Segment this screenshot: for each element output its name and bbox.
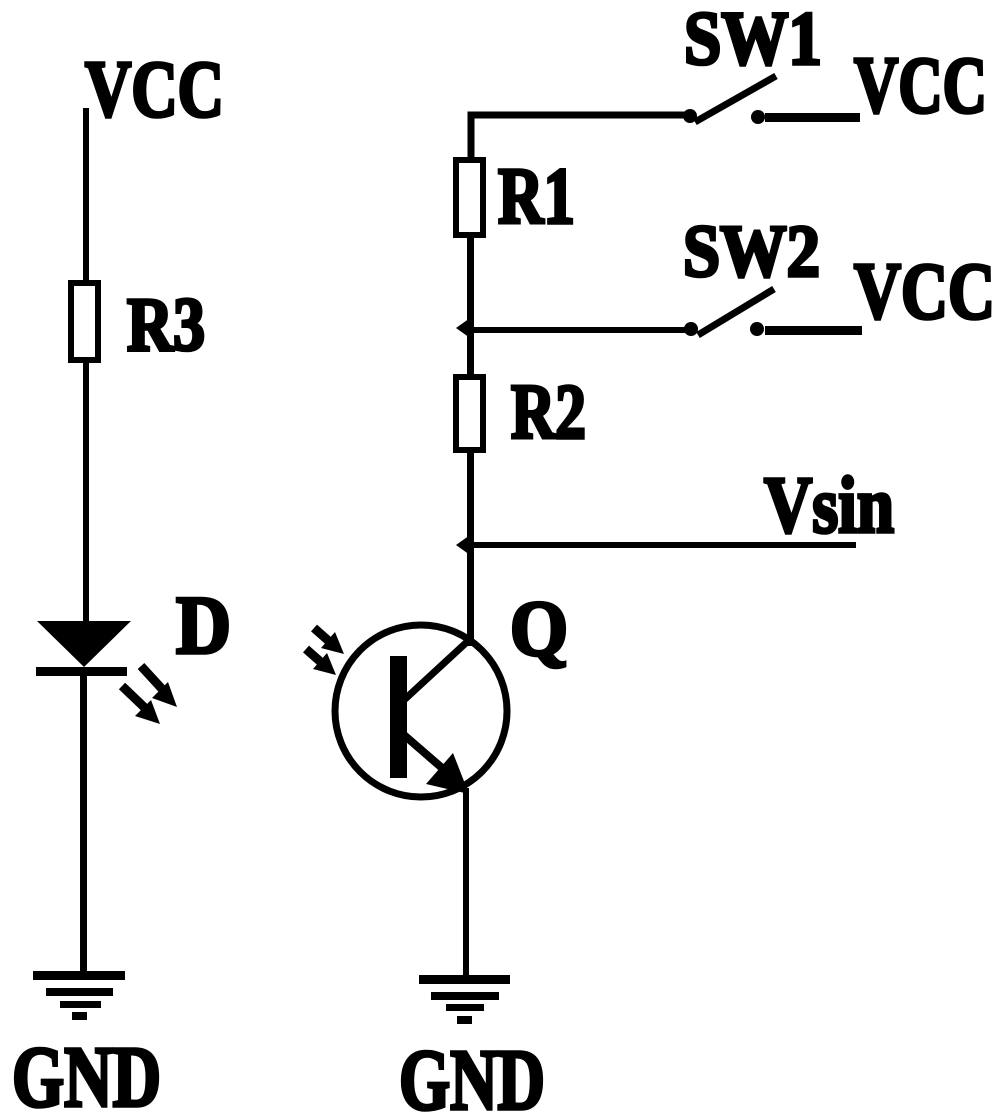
wire node to SW2 [470,327,688,333]
resistor R1 [456,160,483,235]
transistor Q body circle [335,625,507,797]
switch SW2 left contact [684,322,698,336]
LED D cathode bar [36,667,127,676]
ground (left) [33,971,125,1020]
wire R2 to Q [467,450,474,646]
svg-text:VCC: VCC [85,46,224,134]
transistor Q collector lead [404,641,468,700]
svg-text:VCC: VCC [854,246,995,336]
LED D emission arrow 1 [141,666,177,707]
photo arrow 2 into Q [306,649,336,675]
resistor R3 [71,283,98,360]
svg-text:R3: R3 [127,283,205,367]
transistor Q emitter arrowhead [426,753,469,794]
LED D emission arrow 2 [122,686,160,724]
wire R3 to LED [83,360,89,623]
svg-text:GND: GND [399,1031,545,1118]
transistor Q base bar [390,656,407,778]
svg-text:SW1: SW1 [684,0,822,81]
switch SW1 blade [695,76,776,122]
wire LED to ground [80,674,87,976]
svg-text:Vsin: Vsin [764,462,894,550]
LED D anode triangle [37,621,131,667]
svg-text:GND: GND [12,1028,161,1118]
svg-text:D: D [176,579,231,671]
switch SW1 left contact [683,109,697,123]
svg-text:R1: R1 [498,153,575,241]
svg-text:R2: R2 [511,368,586,455]
node arrow at R1/R2 junction [456,318,470,338]
resistor R2 [456,377,483,450]
node arrow at Vsin junction [456,535,470,555]
wire SW1 to VCC [765,113,860,122]
wire VCC to R3 [83,108,89,283]
wire top corner to SW1 [471,115,694,158]
switch SW2 blade [698,289,774,335]
photo arrow 1 into Q [314,628,344,654]
wire SW2 to VCC [765,326,862,335]
svg-text:SW2: SW2 [683,211,820,293]
switch SW2 right contact [750,322,764,336]
wire R1 to R2 [467,236,474,377]
wire node to Vsin [470,542,856,548]
svg-text:VCC: VCC [854,40,987,130]
switch SW1 right contact [751,110,765,124]
ground (right) [419,975,510,1024]
svg-text:Q: Q [510,585,568,672]
transistor Q emitter lead [404,735,449,774]
wire Q emitter to ground [463,788,469,978]
